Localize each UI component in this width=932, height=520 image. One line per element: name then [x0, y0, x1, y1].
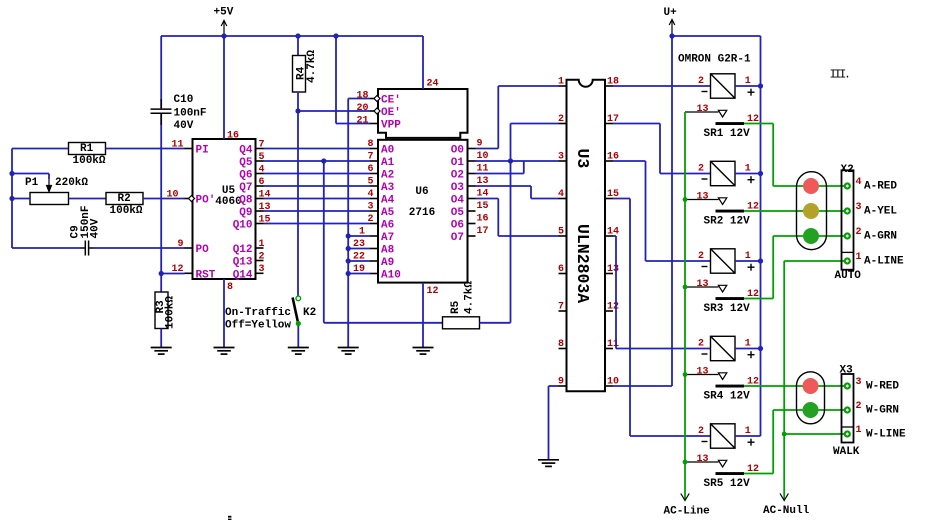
junction +5V at VPP drop — [333, 33, 338, 38]
relay SR2 contact blade — [716, 210, 745, 213]
pin 18 U3 — [605, 85, 613, 87]
wire U3 pin16 to relay SR3 coil — [613, 160, 646, 162]
pin 1 U5 Q12 — [256, 247, 264, 249]
wire O2 row — [476, 173, 524, 175]
wire OE' to R4 node — [298, 110, 370, 112]
svg-text:5: 5 — [558, 227, 564, 238]
wire O3 row — [476, 185, 532, 187]
svg-text:100kΩ: 100kΩ — [73, 155, 106, 167]
wire R5 row horizontal — [324, 322, 443, 324]
svg-text:2716: 2716 — [409, 207, 435, 219]
svg-text:W-RED: W-RED — [866, 381, 899, 393]
svg-text:Q14: Q14 — [233, 270, 253, 282]
wire U3 pin9 to ground — [549, 385, 559, 387]
svg-text:SR2 12V: SR2 12V — [704, 216, 751, 228]
svg-text:1: 1 — [558, 77, 564, 88]
svg-text:RST: RST — [196, 270, 216, 282]
traffic light AUTO head — [797, 172, 827, 250]
svg-text:40V: 40V — [90, 218, 102, 238]
lamp W-GRN — [803, 402, 819, 418]
wire U3 pin15 to relay SR5 coil — [613, 198, 630, 200]
wire Q5-A1 — [264, 160, 371, 162]
svg-text:A5: A5 — [381, 207, 395, 219]
svg-text:U+: U+ — [664, 7, 678, 19]
wire VPP to +5V — [335, 36, 337, 124]
potentiometer P1 — [47, 179, 52, 192]
junction A10 ground tie — [346, 271, 351, 276]
svg-text:40V: 40V — [174, 120, 194, 132]
op-amp U6 2716 EPROM — [378, 89, 468, 138]
pin 2 U6 A6 — [370, 223, 378, 225]
pin 13 U6 O3 — [468, 185, 476, 187]
pin 2 X3 W-GRN — [844, 406, 851, 413]
wire P1 to R2 — [69, 198, 107, 200]
wire R4 top lead — [297, 36, 299, 56]
pin 15 U3 — [605, 198, 613, 200]
svg-text:K2: K2 — [303, 307, 316, 319]
svg-text:15: 15 — [477, 201, 489, 212]
svg-text:2: 2 — [698, 251, 704, 262]
wire A9 stub to ground net — [348, 260, 370, 262]
pin 7 U5 Q4 — [256, 148, 264, 150]
svg-text:Q13: Q13 — [233, 257, 253, 269]
pin 6 U6 A2 — [370, 173, 378, 175]
junction OE'/R4/K2 node — [295, 108, 300, 113]
pin 23 U6 A8 — [370, 248, 378, 250]
svg-text:A1: A1 — [381, 157, 395, 169]
svg-text:O5: O5 — [451, 207, 465, 219]
op-amp U3 ULN2803A driver — [567, 80, 606, 392]
wire A8 stub to ground net — [348, 248, 370, 250]
frame mark bottom — [228, 516, 231, 518]
svg-text:16: 16 — [477, 214, 489, 225]
relay SR5 contact blade — [716, 472, 745, 475]
relay SR5 coil — [711, 424, 736, 448]
pin 21 U6 VPP — [370, 123, 378, 125]
pin 8 U3 — [559, 348, 567, 350]
svg-text:A9: A9 — [381, 257, 394, 269]
junction +5V at R4 — [295, 33, 300, 38]
power U+ supply symbol — [669, 20, 675, 37]
wire U+ rail — [672, 35, 761, 37]
svg-text:3: 3 — [367, 202, 373, 213]
svg-text:20: 20 — [356, 103, 368, 114]
pin 12 U3 — [605, 310, 613, 312]
junction A8 ground tie — [346, 246, 351, 251]
wire O0 to U3 pin1 — [476, 148, 499, 150]
svg-text:O0: O0 — [451, 145, 464, 157]
svg-text:4.7kΩ: 4.7kΩ — [464, 281, 476, 314]
svg-text:100nF: 100nF — [174, 108, 207, 120]
svg-text:SR5 12V: SR5 12V — [704, 478, 751, 490]
svg-text:8: 8 — [558, 339, 564, 350]
wire +5V rail — [161, 35, 423, 37]
junction SR2 U+ tap — [758, 171, 763, 176]
svg-text:PI: PI — [196, 145, 209, 157]
svg-text:Q7: Q7 — [239, 182, 252, 194]
pin 12 U6 GND — [422, 283, 424, 348]
svg-text:100kΩ: 100kΩ — [110, 205, 143, 217]
svg-text:O1: O1 — [451, 157, 465, 169]
svg-text:11: 11 — [171, 139, 183, 150]
svg-text:2: 2 — [558, 114, 564, 125]
pin 9 U3 — [559, 385, 567, 387]
svg-text:9: 9 — [558, 377, 564, 388]
wire SR5-12 to W-GRN — [744, 473, 773, 475]
svg-text:O6: O6 — [451, 220, 464, 232]
svg-text:6: 6 — [367, 164, 373, 175]
pin 6 U3 — [559, 273, 567, 275]
pin 4 U3 — [559, 198, 567, 200]
wire CE' to ground vertical — [348, 98, 370, 100]
svg-text:A0: A0 — [381, 145, 394, 157]
svg-text:A-YEL: A-YEL — [864, 206, 897, 218]
svg-text:Q9: Q9 — [239, 207, 252, 219]
pin 4 U6 A4 — [370, 198, 378, 200]
svg-text:6: 6 — [558, 264, 564, 275]
svg-text:8: 8 — [367, 139, 373, 150]
pin 15 U6 O5 — [468, 210, 476, 212]
junction W-LINE tap — [782, 432, 787, 437]
junction P1 wiper tap — [9, 171, 14, 176]
resistor R4 — [293, 56, 306, 93]
svg-text:3: 3 — [558, 152, 564, 163]
svg-text:1: 1 — [856, 252, 862, 263]
wire O2 jog — [523, 161, 525, 174]
pin 10 U5 PO' — [185, 198, 193, 200]
wire W-LINE — [784, 433, 847, 435]
wire RST to R3 — [160, 274, 162, 293]
wire R4 bottom lead — [297, 92, 299, 111]
ground U6 pin12 — [413, 348, 434, 355]
ground U3 pin9 — [538, 460, 559, 467]
svg-text:Q6: Q6 — [239, 170, 252, 182]
wire SR4-12 to W-RED — [744, 385, 847, 387]
pin 11 U5 PI — [185, 148, 193, 150]
relay SR1 contact blade — [716, 122, 745, 125]
wire R3 to ground — [160, 329, 162, 348]
pin 4 U5 Q6 — [256, 173, 264, 175]
svg-text:SR4 12V: SR4 12V — [704, 391, 751, 403]
svg-text:A8: A8 — [381, 245, 395, 257]
wire SR3 coil plus to U+ — [735, 260, 761, 262]
relay SR2 coil — [711, 161, 736, 185]
pin 14 U5 Q8 — [256, 198, 264, 200]
junction Q5/A1 to R5 tap — [321, 158, 326, 163]
resistor R3 — [155, 292, 168, 329]
svg-text:VPP: VPP — [381, 120, 401, 132]
svg-text:On-Traffic: On-Traffic — [225, 307, 291, 319]
svg-text:13: 13 — [697, 454, 709, 465]
wire Q8-A4 — [264, 198, 371, 200]
junction AC-Line tap — [683, 372, 688, 377]
svg-text:A4: A4 — [381, 195, 395, 207]
pin 6 U5 Q7 — [256, 185, 264, 187]
wire SR2 coil plus to U+ — [735, 173, 761, 175]
svg-text:W-GRN: W-GRN — [866, 405, 899, 417]
pin 3 U6 A5 — [370, 210, 378, 212]
svg-text:1: 1 — [856, 425, 862, 436]
resistor R5 — [443, 317, 480, 329]
wire C9 left lead — [12, 247, 81, 249]
pin 13 U3 — [605, 273, 613, 275]
svg-text:5: 5 — [367, 177, 373, 188]
lamp A-GRN — [803, 228, 819, 244]
wire RST to U5 — [161, 273, 184, 275]
svg-text:21: 21 — [356, 116, 368, 127]
pin 20 U6 OE' — [370, 110, 378, 112]
wire AC-Line common bus — [684, 112, 686, 493]
wire A10 stub to ground net — [348, 273, 370, 275]
wire U3 pin14 to relay SR4 coil — [613, 235, 616, 237]
svg-text:12: 12 — [171, 264, 183, 275]
wire R5 up to U3 pin2 net — [510, 124, 512, 323]
svg-text:PO: PO — [196, 244, 210, 256]
wire OE' node down to K2 — [297, 111, 299, 296]
pin 3 X3 W-RED — [844, 382, 851, 389]
node AC-Line arrow — [684, 493, 686, 499]
svg-text:2: 2 — [856, 401, 862, 412]
pin 16 U6 O6 — [468, 223, 476, 225]
wire SR2-12 to A-YEL — [744, 210, 847, 212]
wire A-LINE to AC-Null riser — [784, 260, 847, 262]
svg-text:WALK: WALK — [833, 446, 860, 458]
lamp W-RED — [803, 378, 819, 394]
pin 17 U6 O7 — [468, 235, 476, 237]
svg-text:23: 23 — [353, 239, 365, 250]
ground CE'/A7-A10 net — [338, 348, 359, 355]
wire relay supply vertical — [760, 36, 762, 436]
svg-text:U3: U3 — [573, 149, 592, 169]
svg-text:SR3 12V: SR3 12V — [704, 303, 751, 315]
junction SR4 U+ tap — [758, 346, 763, 351]
capacitor C9 — [81, 241, 94, 256]
svg-text:PO': PO' — [196, 195, 216, 207]
svg-text:SR1 12V: SR1 12V — [704, 128, 751, 140]
svg-text:3: 3 — [856, 377, 862, 388]
pin 10 U3 — [605, 385, 613, 387]
pin 4 X2 A-RED — [844, 182, 851, 189]
svg-text:Q10: Q10 — [233, 220, 253, 232]
pin 2 U3 — [559, 123, 567, 125]
junction AC-Line tap — [683, 197, 688, 202]
svg-text:12: 12 — [607, 302, 619, 313]
svg-text:R5: R5 — [450, 300, 462, 314]
pin 7 U3 — [559, 310, 567, 312]
wire U3 pin17 to relay SR2 coil — [613, 123, 660, 125]
svg-text:W-LINE: W-LINE — [866, 429, 906, 441]
wire R2 to U5 PO' — [143, 198, 185, 200]
svg-text:2: 2 — [698, 76, 704, 87]
svg-text:Q8: Q8 — [239, 195, 253, 207]
pin 2 X2 A-GRN — [844, 232, 851, 239]
svg-text:X2: X2 — [841, 164, 854, 176]
connector X2 — [842, 170, 854, 269]
pin 11 U3 — [605, 348, 613, 350]
wire O1 row to U3 pin3 — [476, 160, 559, 162]
svg-text:10: 10 — [166, 189, 178, 200]
svg-text:1: 1 — [259, 239, 265, 250]
svg-text:220kΩ: 220kΩ — [55, 177, 88, 189]
svg-text:3: 3 — [259, 264, 265, 275]
junction AC-Line tap — [683, 285, 688, 290]
wire SR1 coil plus to U+ — [735, 85, 761, 87]
pin 1 X3 W-LINE — [844, 430, 851, 437]
pin 16 U3 — [605, 160, 613, 162]
svg-text:A10: A10 — [381, 270, 401, 282]
pin 9 U6 O0 — [468, 148, 476, 150]
pin 3 U3 — [559, 160, 567, 162]
pin 12 U5 RST — [185, 272, 193, 274]
pin 1 U3 — [559, 85, 567, 87]
wire Q9-A5 — [264, 210, 371, 212]
junction +5V at U5 pin16 drop — [221, 33, 226, 38]
pin 8 U6 A0 — [370, 148, 378, 150]
wire R5 right lead — [480, 322, 511, 324]
svg-text:O7: O7 — [451, 232, 464, 244]
svg-text:+5V: +5V — [214, 7, 234, 19]
svg-text:P1: P1 — [25, 177, 39, 189]
svg-text:24: 24 — [427, 79, 439, 90]
svg-text:AUTO: AUTO — [835, 270, 862, 282]
svg-text:13: 13 — [697, 191, 709, 202]
svg-text:4: 4 — [856, 177, 862, 188]
svg-text:ULN2803A: ULN2803A — [573, 224, 592, 303]
capacitor C10 — [151, 99, 172, 125]
pin 11 U6 O2 — [468, 173, 476, 175]
relay SR4 contact blade — [716, 385, 745, 388]
svg-text:13: 13 — [607, 264, 619, 275]
wire U3 pin2 horizontal — [511, 123, 559, 125]
svg-text:A-RED: A-RED — [864, 181, 897, 193]
wire A1 node down to R5 row — [323, 161, 325, 323]
pin 10 U6 O1 — [468, 160, 476, 162]
junction P1 left terminal — [9, 196, 14, 201]
svg-text:13: 13 — [697, 366, 709, 377]
svg-text:13: 13 — [697, 104, 709, 115]
svg-text:OMRON G2R-1: OMRON G2R-1 — [678, 54, 751, 66]
svg-text:A-GRN: A-GRN — [864, 231, 897, 243]
junction SR3 U+ tap — [758, 258, 763, 263]
op-amp U5 4060 counter — [193, 139, 256, 279]
svg-text:R1: R1 — [80, 143, 94, 155]
svg-text:OE': OE' — [381, 107, 401, 119]
svg-text:18: 18 — [356, 91, 368, 102]
ground R3 — [151, 348, 172, 355]
wire Q7-A3 — [264, 185, 371, 187]
svg-text:2: 2 — [367, 214, 373, 225]
wire Q10-A6 — [264, 223, 371, 225]
junction RST node — [159, 271, 164, 276]
svg-text:7: 7 — [558, 302, 564, 313]
svg-text:U6: U6 — [415, 186, 428, 198]
pin 24 U6 VCC — [422, 36, 424, 89]
svg-text:A-LINE: A-LINE — [864, 256, 904, 268]
svg-text:.: . — [844, 68, 851, 82]
svg-text:Q12: Q12 — [233, 244, 253, 256]
lamp A-YEL — [803, 203, 819, 219]
pin 15 U5 Q10 — [256, 223, 264, 225]
resistor R1 — [69, 143, 106, 155]
svg-text:Q4: Q4 — [239, 145, 253, 157]
pin 1 X2 A-LINE — [844, 257, 851, 264]
wire C9 to U5 PO — [94, 247, 185, 249]
svg-text:R2: R2 — [118, 193, 131, 205]
relay SR1 coil — [711, 74, 736, 98]
pin 3 X2 A-YEL — [844, 207, 851, 214]
pin 19 U6 A10 — [370, 273, 378, 275]
pin 14 U3 — [605, 235, 613, 237]
wire left vertical R1/P1/C9 — [11, 149, 13, 249]
wire SR4 coil plus to U+ — [735, 348, 761, 350]
ground U5 pin8 — [214, 348, 235, 355]
svg-text:O2: O2 — [451, 170, 464, 182]
svg-text:X3: X3 — [840, 365, 854, 377]
pin 8 U5 GND — [223, 279, 225, 348]
junction SR1 U+ tap — [758, 83, 763, 88]
svg-text:AC-Null: AC-Null — [763, 505, 810, 517]
pin 18 U6 CE' — [370, 98, 378, 100]
pin 2 U5 Q13 — [256, 260, 264, 262]
wire P1 wiper — [12, 173, 49, 175]
svg-text:O4: O4 — [451, 195, 465, 207]
svg-text:4060: 4060 — [215, 196, 241, 208]
svg-text:2: 2 — [856, 227, 862, 238]
svg-text:C10: C10 — [174, 94, 194, 106]
junction A9 ground tie — [346, 258, 351, 263]
wire Q6-A2 — [264, 173, 371, 175]
power +5V supply symbol — [221, 21, 227, 37]
pin 5 U6 A3 — [370, 185, 378, 187]
svg-text:19: 19 — [353, 264, 365, 275]
junction A7 ground tie — [346, 233, 351, 238]
node AC-Null arrow — [783, 493, 785, 499]
pin 5 U5 Q5 — [256, 160, 264, 162]
label sheet III. — [830, 68, 852, 82]
svg-text:A6: A6 — [381, 220, 394, 232]
svg-text:8: 8 — [227, 282, 233, 293]
traffic light WALK head — [797, 372, 825, 424]
svg-text:9: 9 — [177, 239, 183, 250]
svg-text:AC-Line: AC-Line — [664, 506, 711, 518]
svg-text:2: 2 — [259, 251, 265, 262]
wire U3 pin18 to relay SR1 coil — [613, 85, 711, 87]
svg-text:1: 1 — [359, 227, 365, 238]
svg-text:4: 4 — [558, 189, 564, 200]
pin 22 U6 A9 — [370, 260, 378, 262]
svg-text:A2: A2 — [381, 170, 394, 182]
relay SR3 coil — [711, 249, 736, 273]
resistor R2 — [106, 193, 143, 205]
wire O4 row — [476, 198, 499, 200]
pin 5 U3 — [559, 235, 567, 237]
junction AC-Line tap — [683, 460, 688, 465]
wire A7 stub to ground net — [348, 235, 370, 237]
pin 7 U6 A1 — [370, 160, 378, 162]
svg-text:17: 17 — [477, 226, 489, 237]
svg-text:12: 12 — [427, 286, 439, 297]
lamp A-RED — [803, 178, 819, 194]
svg-text:4: 4 — [367, 189, 373, 200]
wire O3 jog to U3 pin4 — [530, 186, 532, 199]
svg-text:A7: A7 — [381, 232, 394, 244]
pin 17 U3 — [605, 123, 613, 125]
pin 13 U5 Q9 — [256, 210, 264, 212]
svg-text:100kΩ: 100kΩ — [165, 296, 177, 329]
ground K2 — [288, 348, 309, 355]
wire U5 pin16 supply drop — [223, 36, 225, 139]
wire SR5 coil plus to U+ — [735, 435, 761, 437]
